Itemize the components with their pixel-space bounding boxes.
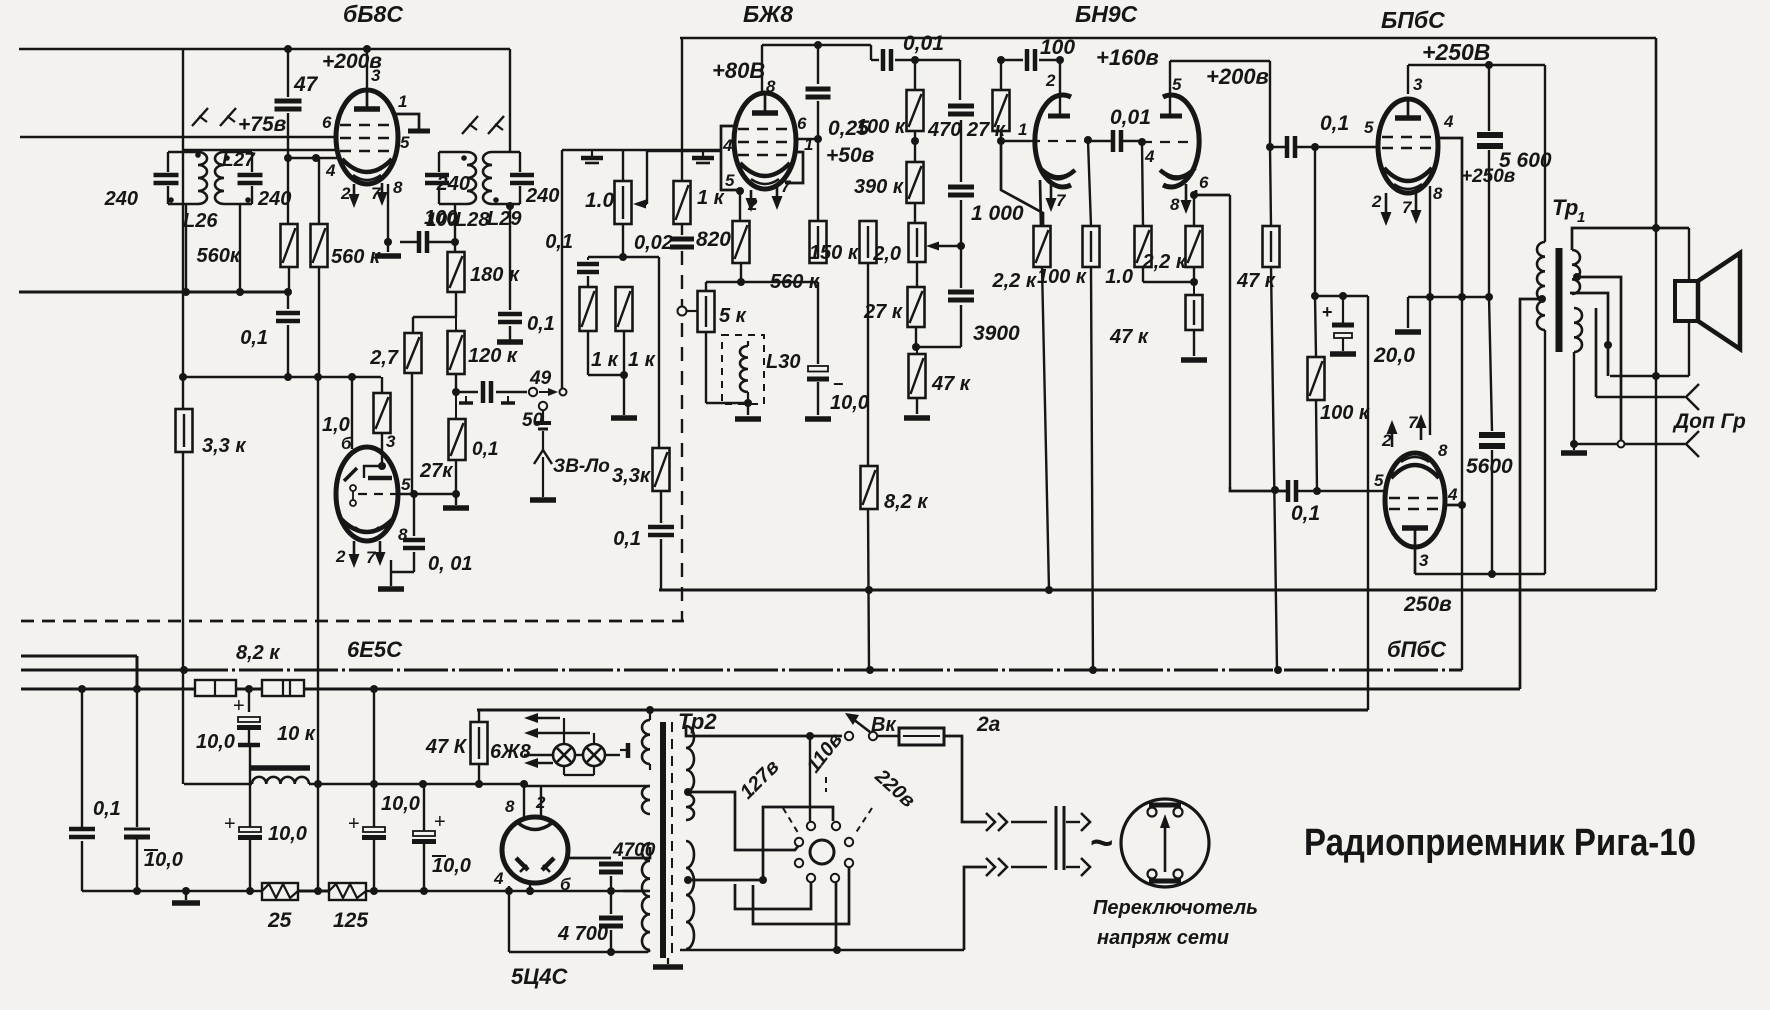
svg-text:1: 1 — [398, 92, 407, 111]
wire 6P6S1 plate stem — [1407, 65, 1409, 94]
wire 5k bottom — [705, 332, 707, 403]
capacitor 0,01 (interstage) — [1113, 130, 1121, 152]
svg-text:0,01: 0,01 — [903, 32, 944, 55]
ground main — [172, 900, 200, 906]
resistor 560k-b — [311, 224, 328, 267]
selector contact 5 — [795, 859, 803, 867]
wire speaker return y376 — [1610, 375, 1689, 377]
6N9S t1 plate — [1048, 114, 1070, 119]
transformer Tr1 core — [1556, 248, 1563, 352]
wire 47cap to 560k-a — [287, 113, 289, 224]
wire 47k feed to bus670 — [1271, 267, 1277, 670]
wire HV bottom — [648, 950, 650, 952]
svg-text:L30: L30 — [766, 351, 800, 373]
wire 4700b bottom — [610, 930, 612, 952]
chevron upper 2 — [998, 813, 1007, 831]
svg-text:5: 5 — [400, 133, 410, 152]
dashed 127V — [783, 808, 800, 836]
resistor 27k (6E5C) — [374, 393, 391, 433]
ground divider — [904, 415, 930, 421]
wire 6Zh8 plate stem — [761, 45, 763, 94]
wire 47k heater bottom — [478, 764, 480, 784]
dial lamp 2 — [583, 744, 605, 766]
capacitor 3900 — [948, 292, 974, 300]
tube 5Ts4S (5Ц4С) — [502, 817, 568, 883]
capacitor 100 (6N9S) — [1027, 49, 1035, 71]
overline 10,0 line — [144, 849, 158, 851]
tube 6N9S triode 1 envelope — [1035, 95, 1071, 187]
svg-text:3,3 к: 3,3 к — [202, 435, 246, 457]
capacitor 0,1 (L29) — [498, 314, 522, 322]
svg-text:2а: 2а — [976, 713, 1001, 736]
wire 1,0 bottom — [1142, 267, 1144, 282]
junction sec tap a — [1573, 273, 1581, 281]
resistor 560k (6Zh8 plate) — [810, 221, 827, 263]
cathode arrow 2 6P6S2 — [1387, 420, 1398, 447]
terminal on Dop Gr lower — [1618, 441, 1625, 448]
capacitor L29 tuning — [510, 175, 534, 183]
svg-text:2: 2 — [1381, 431, 1392, 450]
junction pin5 wire/col — [452, 490, 460, 498]
capacitor 0,02 — [670, 239, 694, 247]
wire 10,0b stem — [248, 689, 250, 712]
junction 10,0e top — [419, 780, 427, 788]
selector contact 3 — [795, 838, 803, 846]
svg-text:5: 5 — [1172, 75, 1182, 94]
ground 10,0 — [805, 416, 831, 422]
wire 3900 to junction — [916, 346, 961, 348]
wire +250V rail — [1408, 64, 1545, 66]
wire 820 bottom — [740, 263, 742, 282]
svg-text:10,0: 10,0 — [830, 392, 869, 414]
wire Dop Gr upper — [1596, 396, 1685, 398]
resistor 2,2k (t2 cathode) — [1186, 226, 1203, 267]
wire speaker bottom down — [1688, 321, 1690, 376]
svg-text:0,1: 0,1 — [527, 313, 555, 335]
junction t1cath/bus590 — [1045, 586, 1053, 594]
junction y376/x1656 — [1652, 372, 1660, 380]
dashed 220V — [855, 808, 872, 834]
cathode arrow 7 6P6S1 — [1411, 190, 1422, 224]
wire bus y670 left — [21, 669, 184, 672]
arrow into plug upper — [1066, 821, 1080, 823]
wire 5600a top — [1488, 65, 1490, 131]
wire 100k gl to bus — [1091, 267, 1093, 672]
wire +250V to Tr1 primary — [1544, 65, 1546, 242]
junction plate 6B8C on +200V rail — [363, 45, 371, 53]
wire y257 — [588, 256, 659, 258]
junction 560k-a top — [284, 154, 292, 162]
junction 27k/47k/3900 — [912, 343, 920, 351]
wire AVC bend down — [1001, 141, 1043, 226]
svg-text:1 к: 1 к — [591, 349, 619, 371]
wire switch bottom y950 — [680, 949, 964, 951]
wire cap0.1-L29 stem — [509, 326, 511, 340]
svg-text:8: 8 — [1170, 195, 1180, 214]
wire to cap 0,01 — [871, 59, 879, 61]
wire x137 column — [136, 689, 138, 827]
selector contact 4 — [845, 838, 853, 846]
wire 470cap top — [959, 60, 961, 100]
wire long vertical x183 — [182, 49, 184, 784]
wire 180k bottom — [455, 292, 457, 317]
wire 2,2k-2 bottom — [1193, 267, 1195, 282]
wire cathode to 820 — [739, 191, 741, 221]
wire L29 bottom — [509, 204, 511, 310]
wire speaker loop top — [1572, 228, 1689, 250]
junction pin5/cap0,01 — [410, 490, 418, 498]
wire x1656 down to bus — [1655, 229, 1657, 590]
capacitor 47 — [275, 101, 302, 109]
ground Tr1 secondary — [1561, 450, 1587, 456]
terminal Dop Gr lower — [1686, 431, 1699, 457]
wire cathode to 2,2k-2 — [1193, 195, 1195, 226]
wire 47k feed top — [1270, 147, 1271, 226]
junction grid2/1,0 — [1138, 138, 1146, 146]
wire 0,1 to grid node — [1295, 146, 1315, 148]
svg-text:4: 4 — [1144, 147, 1155, 166]
resistor 47k (div) — [909, 354, 926, 398]
wire pin4 6P6S1 — [1438, 138, 1462, 296]
wire gnd main stem — [185, 891, 187, 900]
svg-text:7: 7 — [1402, 198, 1413, 217]
svg-text:Переключотель: Переключотель — [1093, 897, 1258, 919]
wire Tr1 sec tap b — [1570, 293, 1608, 376]
svg-text:Тр: Тр — [1552, 195, 1578, 220]
terminal 49 — [529, 388, 537, 396]
svg-text:2,2 к: 2,2 к — [992, 270, 1037, 292]
svg-text:бБ8С: бБ8С — [343, 1, 403, 27]
junction Tr1 tap — [1538, 295, 1546, 303]
svg-text:1 000: 1 000 — [971, 202, 1024, 225]
svg-text:5 к: 5 к — [719, 305, 747, 327]
wire to 560k-c — [817, 139, 819, 221]
junction 5600b/plate — [1488, 570, 1496, 578]
wire nest w6 — [753, 867, 849, 924]
wire to cap 49 — [456, 391, 478, 393]
tone pot wiper arrow — [926, 242, 961, 251]
wire cap0,01 bottom — [413, 552, 415, 572]
capacitor 0,1 (a) — [276, 313, 300, 321]
junction pin8/y784 — [520, 780, 528, 788]
junction pin8 6B8C — [384, 238, 392, 246]
wire pin1 6B8C to bypass — [395, 114, 419, 129]
wire to 6E5C ground — [391, 571, 414, 573]
svg-text:125: 125 — [333, 909, 368, 932]
selector contact 2 — [832, 822, 840, 830]
tube 6E5C (бЕ5С) — [336, 447, 398, 541]
junction y656/y689 — [133, 685, 141, 693]
svg-text:+50в: +50в — [826, 144, 875, 167]
svg-text:6: 6 — [797, 114, 807, 133]
svg-text:4: 4 — [493, 869, 504, 888]
wire bend to 0,01 — [870, 45, 872, 60]
wire heater row — [524, 754, 553, 756]
svg-text:4: 4 — [325, 161, 336, 180]
svg-text:10,0: 10,0 — [381, 793, 420, 815]
wire 5k top stub — [705, 282, 707, 291]
wire 120k bottom — [455, 374, 457, 392]
fuse 2a — [899, 728, 944, 745]
resistor 1k-a — [580, 287, 597, 331]
wire pot bottom — [622, 224, 624, 257]
resistor 47k (heater) — [471, 722, 488, 764]
svg-text:+: + — [224, 813, 236, 835]
wire bus y292 — [19, 291, 288, 294]
wire 4700a bottom — [610, 876, 612, 891]
chevron lower 1 — [986, 858, 995, 876]
svg-text:8,2 к: 8,2 к — [884, 491, 928, 513]
wire bottom bus right — [366, 890, 648, 893]
svg-text:240: 240 — [525, 185, 559, 207]
wire speaker loop right down — [1688, 228, 1690, 280]
wire 100k-390k — [914, 131, 916, 162]
svg-text:49: 49 — [529, 368, 552, 389]
junction pin4/bias — [1458, 293, 1466, 301]
terminal 5k tap — [678, 307, 687, 316]
dial lamp 1 — [553, 744, 575, 766]
coil L26 — [168, 152, 207, 204]
resistor 100k (div) — [907, 90, 924, 131]
capacitor 10,0 (6Zh8 cathode) — [807, 366, 829, 379]
wire shared cathode x1430 — [1429, 186, 1431, 435]
svg-text:4: 4 — [1447, 485, 1458, 504]
resistor 8,2k pair a — [195, 680, 236, 696]
junction sec tap b — [1604, 341, 1612, 349]
phone jack symbol — [534, 410, 552, 497]
ground L29 cap — [497, 339, 523, 345]
junction 6N9S plate top — [1056, 56, 1064, 64]
svg-text:100 к: 100 к — [856, 116, 906, 138]
svg-text:20,0: 20,0 — [1373, 344, 1415, 367]
coil L30 — [740, 346, 748, 392]
svg-text:560 к: 560 к — [331, 246, 381, 268]
potentiometer 1,0 (volume) — [615, 181, 632, 224]
svg-text:0,1: 0,1 — [1320, 112, 1349, 135]
junction cathode t2 — [1190, 191, 1198, 199]
svg-text:Тр2: Тр2 — [678, 709, 717, 734]
switch Vk contact b — [869, 732, 877, 740]
junction coupling 6P6S — [1266, 143, 1274, 151]
junction primary tap 127 — [684, 788, 692, 796]
wire grid2 dashed — [1142, 141, 1196, 143]
junction grid 6P6S2 — [1313, 487, 1321, 495]
wire 2,0-27k — [916, 262, 918, 287]
resistor 3,3k (mid) — [653, 448, 670, 491]
junction 6Zh8 cathode — [736, 187, 744, 195]
junction 120k/0,1/49 — [452, 388, 460, 396]
svg-text:5600: 5600 — [1466, 455, 1513, 478]
wire +80V rail — [762, 44, 871, 46]
svg-text:470: 470 — [927, 119, 961, 141]
wire 2,7 bottom to pin5 — [411, 373, 413, 494]
wire Dop Gr lower — [1574, 443, 1685, 445]
svg-text:7: 7 — [1056, 191, 1067, 210]
heater arrows — [524, 713, 590, 768]
svg-text:5Ц4С: 5Ц4С — [511, 964, 569, 989]
wire 6B8C cathode gnd stem — [387, 242, 389, 252]
wire phase feed corner — [1230, 487, 1288, 491]
svg-text:5: 5 — [401, 475, 411, 494]
svg-text:10,0: 10,0 — [144, 849, 183, 871]
wire grid 6P6S2 — [1317, 490, 1385, 492]
svg-text:−: − — [833, 374, 844, 394]
svg-text:240: 240 — [436, 173, 470, 195]
wire bus y590 — [659, 589, 1656, 592]
wire 1k-grid column top — [681, 38, 683, 181]
junction L28/180k — [451, 238, 459, 246]
svg-text:10 к: 10 к — [277, 723, 316, 745]
svg-text:0,1: 0,1 — [472, 439, 498, 460]
wire 1k-b bottom — [623, 331, 625, 375]
wire to 3900 — [960, 246, 962, 288]
junction pin4/bus — [505, 887, 513, 895]
junction 4700b/y952 — [607, 948, 615, 956]
svg-text:7: 7 — [1408, 413, 1419, 432]
arrowhead into terminal — [548, 388, 558, 396]
svg-text:27к: 27к — [419, 460, 453, 482]
terminal on pot box — [560, 389, 567, 396]
svg-text:250в: 250в — [1403, 593, 1452, 616]
svg-text:бПбС: бПбС — [1387, 637, 1447, 662]
wire 1k-a bottom — [587, 331, 589, 375]
svg-text:8: 8 — [505, 797, 515, 816]
junction x1315/y296 — [1311, 292, 1319, 300]
voltage selector plug — [1121, 799, 1209, 887]
wire 390k-2,0 — [914, 203, 916, 223]
wire grid 6N9S dashed — [1030, 140, 1088, 142]
ground phone jack — [530, 497, 556, 503]
junction 10,0d/bus689 — [370, 685, 378, 693]
cathode arrow 7 6Zh8 — [772, 186, 783, 210]
wire to plug upper — [1011, 821, 1047, 823]
wire top bus down x1656 — [1655, 38, 1658, 229]
transformer Tr2 primary mid — [686, 794, 694, 820]
capacitor 10,0 (line) — [124, 829, 150, 837]
wire cap100 to plate — [1039, 59, 1060, 61]
wire phase-inv feed x1230 — [1229, 195, 1231, 487]
svg-text:L28: L28 — [455, 209, 490, 231]
svg-text:3,3к: 3,3к — [612, 465, 651, 487]
cathode arrow 7 6B8C — [377, 183, 388, 206]
wire 1000-wiper — [960, 200, 962, 246]
wire 6N9S t1 cathode to 2,2k — [1040, 180, 1041, 226]
wire 0,02 feed down x659 — [658, 257, 660, 448]
svg-text:1,0: 1,0 — [322, 414, 350, 436]
capacitor 5600 (b) — [1479, 435, 1505, 446]
6N9S t2 plate — [1160, 114, 1182, 119]
svg-text:L26: L26 — [183, 210, 218, 232]
junction grid 6P6S1 — [1311, 143, 1319, 151]
svg-text:+200в: +200в — [1206, 64, 1269, 89]
svg-text:+250в: +250в — [1461, 166, 1515, 187]
junction 5600/bias — [1485, 293, 1493, 301]
wire y952 — [509, 951, 648, 953]
capacitor 4700 (a) — [599, 864, 623, 872]
resistor 2,2k (t1 cathode) — [1034, 226, 1051, 267]
resistor 150k — [860, 221, 877, 263]
svg-text:47: 47 — [293, 73, 319, 96]
metallization mark 2 — [692, 150, 714, 163]
wire pot wiper feed — [646, 150, 648, 204]
capacitor 0,25 — [806, 89, 831, 97]
ground 6B8C cathode — [375, 253, 401, 259]
svg-text:560 к: 560 к — [770, 271, 820, 293]
svg-text:+: + — [233, 695, 245, 717]
junction 1k pair — [620, 371, 628, 379]
wire pot box top y150 — [562, 149, 721, 151]
wire lamp1 bottom — [563, 766, 565, 775]
wire 5Ts4S pin6 — [566, 857, 611, 860]
junction 0,01/100k — [911, 56, 919, 64]
resistor 8,2k pair b — [262, 680, 304, 696]
wire Tr1 sec mid link — [1595, 308, 1598, 397]
svg-text:3: 3 — [1419, 551, 1429, 570]
wire HV top — [622, 847, 650, 858]
resistor 8,2k (mid) — [861, 466, 878, 509]
resistor 180k — [448, 252, 465, 292]
junction 560k-b top — [312, 154, 320, 162]
wire 10,0cap top — [817, 282, 819, 364]
svg-text:820: 820 — [696, 228, 731, 251]
wire bias y297 right — [1408, 296, 1492, 298]
svg-text:+250В: +250В — [1422, 39, 1490, 65]
wire to 4700b — [610, 891, 612, 914]
wire L29 top from rail — [509, 49, 511, 152]
wire 1,0 top — [1142, 142, 1143, 226]
wire heater winding bottom — [649, 764, 651, 770]
wire 100k gl top — [1088, 141, 1091, 226]
svg-text:2,0: 2,0 — [872, 243, 901, 265]
barretter 25 — [262, 883, 298, 900]
wire Tr1 sec tap a — [1576, 277, 1621, 440]
resistor 560k-a — [281, 224, 298, 267]
wire cap0,1mid to bus — [660, 539, 662, 590]
wire top-left +200V rail y49 — [19, 48, 510, 51]
svg-text:8: 8 — [766, 77, 776, 96]
wire pin5 6E5C dashed — [358, 493, 398, 495]
junction x1093/bus670 — [1089, 666, 1097, 674]
wire cap100 to L28 — [429, 241, 455, 243]
wire 6B8C plate stem — [366, 49, 368, 92]
transformer Tr2 heater winding — [642, 720, 650, 764]
svg-text:8: 8 — [1438, 441, 1448, 460]
svg-text:10,0: 10,0 — [432, 855, 471, 877]
svg-text:10,0: 10,0 — [268, 823, 307, 845]
terminal Dop Gr upper — [1686, 384, 1699, 410]
bar 10,0b bottom — [238, 743, 260, 748]
wire cap to terminal 49 — [496, 391, 527, 393]
wire L26 bottom to bus — [185, 204, 187, 292]
6N9S t1 cathode arc — [1040, 168, 1075, 178]
wire 10,0e bottom — [423, 842, 425, 891]
wire 560k-b top stem — [318, 158, 320, 224]
svg-text:2: 2 — [1371, 192, 1382, 211]
wire pin4 6B8C y158 — [288, 157, 337, 159]
resistor 47k (feed) — [1263, 226, 1280, 267]
wire 150k down to 8,2k — [867, 263, 869, 466]
wire plug lower — [964, 867, 987, 950]
capacitor 10,0 (d) — [348, 813, 386, 838]
wire L30 gnd stem — [747, 403, 749, 415]
wire 6E5C gnd stem — [390, 560, 392, 586]
svg-text:5: 5 — [1364, 118, 1374, 137]
transformer Tr2 primary lower — [686, 841, 694, 949]
6E5C target electrode detail — [341, 466, 393, 532]
wire y296 to 100k bias — [1315, 296, 1316, 357]
resistor 820 — [733, 221, 750, 263]
wire y282 — [706, 281, 818, 283]
